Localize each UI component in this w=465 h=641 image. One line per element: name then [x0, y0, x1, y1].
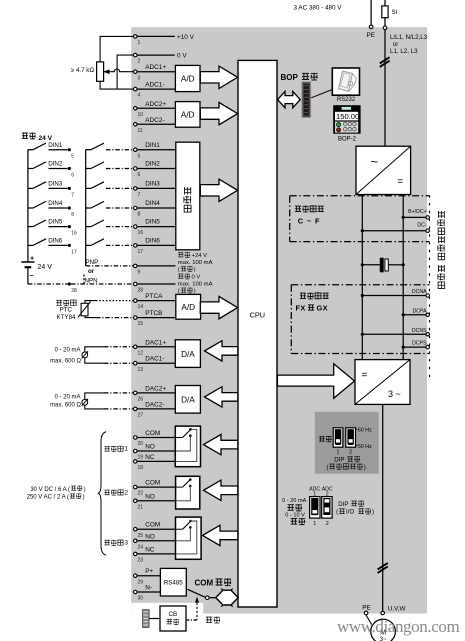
svg-text:3 AC 380 - 480 V: 3 AC 380 - 480 V — [294, 5, 343, 12]
wire dash-dot DIN3 to terminal 7 — [106, 187, 133, 189]
terminal L line input — [383, 26, 387, 30]
shield marker on mains wire — [380, 61, 390, 67]
svg-text:PNP: PNP — [86, 259, 99, 266]
svg-text:18: 18 — [138, 465, 144, 471]
svg-text:28: 28 — [71, 288, 77, 294]
CB option block — [160, 606, 186, 631]
svg-text:CB: CB — [168, 611, 177, 618]
svg-text:7: 7 — [138, 192, 141, 198]
wire terminal1 to potentiometer top — [100, 36, 133, 62]
wire P+ to RS485 — [137, 575, 160, 577]
wire DIN4 to optoisolator — [137, 207, 176, 209]
optoisolator block (guang ge li) — [176, 142, 200, 250]
terminal 16 DIN5 — [134, 225, 138, 229]
signal arrow optoisolator to CPU — [200, 179, 237, 201]
svg-text:30 V DC / 6 A (: 30 V DC / 6 A ( — [30, 487, 70, 493]
svg-text:13: 13 — [138, 367, 144, 373]
CPU block — [238, 60, 277, 607]
label output +24V max 100mA isolated — [178, 252, 183, 257]
wire dash-dot battery to terminal 28 — [28, 283, 68, 285]
wire meter2 top to terminal 26 — [85, 393, 104, 400]
wire PTCB stub to A/D — [137, 317, 176, 319]
terminal 21 relay2 NO — [134, 499, 138, 503]
svg-text:DCNA: DCNA — [412, 289, 427, 295]
wire dash-dot DIN4 to terminal 8 — [106, 207, 133, 209]
A/D converter block U1 — [175, 65, 200, 91]
svg-text:0 V: 0 V — [177, 53, 187, 60]
relay1 contact internals — [175, 437, 182, 439]
wiper arrowhead — [104, 70, 110, 74]
svg-text:8: 8 — [71, 212, 74, 218]
svg-text:2: 2 — [125, 489, 129, 496]
terminal 6 DIN2 — [134, 167, 138, 171]
svg-text:28: 28 — [138, 288, 144, 294]
svg-text:−: − — [30, 273, 34, 280]
svg-text:A/D: A/D — [181, 111, 195, 120]
right measurement dash-dot edge — [429, 196, 431, 377]
svg-text:DAC1+: DAC1+ — [145, 339, 166, 346]
terminal 30 N- — [134, 590, 138, 594]
frame size C-F dash-dot boundary — [290, 195, 430, 197]
wire DCNS to terminal — [362, 333, 425, 335]
svg-text:DIN6: DIN6 — [48, 238, 63, 245]
wire DC- to terminal — [362, 230, 425, 232]
svg-text:~: ~ — [371, 154, 379, 169]
wire DAC1- stub — [137, 362, 175, 364]
svg-text:P+: P+ — [145, 568, 153, 575]
svg-text:1: 1 — [138, 40, 141, 46]
label frame size C ~ F (kuang jia chi cun) — [295, 206, 301, 211]
svg-text:4: 4 — [138, 93, 141, 99]
terminal DCPA — [426, 313, 430, 317]
svg-text:NO: NO — [145, 493, 155, 500]
switch S3 DIN3 external option — [28, 187, 33, 189]
svg-text:1: 1 — [313, 521, 316, 527]
wire dash-dot DIN1 to terminal 5 — [106, 149, 133, 151]
svg-text:NPN: NPN — [85, 277, 98, 284]
svg-text:6: 6 — [138, 172, 141, 178]
svg-text:11: 11 — [138, 128, 143, 134]
svg-text:ADC2+: ADC2+ — [145, 101, 166, 108]
svg-text:BOP: BOP — [281, 73, 299, 82]
svg-text:RS232: RS232 — [337, 97, 356, 103]
svg-text:DIN1: DIN1 — [145, 142, 160, 149]
svg-text:DIN4: DIN4 — [48, 200, 63, 207]
svg-text:RS485: RS485 — [164, 580, 183, 587]
switch S6b DIN6 internal option — [86, 244, 91, 246]
wire relay1 NC — [137, 460, 175, 462]
terminal 25 relay3 COM — [134, 527, 138, 531]
svg-text:1: 1 — [337, 450, 340, 456]
motor output wire U V W — [382, 404, 384, 611]
svg-text:(: ( — [178, 267, 180, 273]
svg-text:DIN6: DIN6 — [145, 238, 160, 245]
terminal 23 relay3 NC — [134, 552, 138, 556]
svg-text:16: 16 — [138, 230, 144, 236]
svg-text:3 ~: 3 ~ — [388, 389, 401, 399]
switch S2 DIN2 external option — [28, 168, 33, 170]
ammeter M2 load symbol — [82, 399, 88, 405]
svg-text:COM: COM — [145, 480, 160, 487]
svg-text:A/D: A/D — [181, 75, 195, 84]
terminal 3 ADC1+ — [134, 70, 138, 74]
svg-text:10: 10 — [138, 112, 144, 118]
DC link positive rail wire — [402, 195, 404, 360]
svg-text:6: 6 — [71, 173, 74, 179]
frame size FX GX dash-dot boundary — [291, 284, 429, 286]
svg-text:DIN2: DIN2 — [48, 161, 63, 168]
RS485 interface block — [160, 568, 186, 596]
selector pivot node — [206, 596, 210, 600]
svg-text:COM: COM — [145, 430, 160, 437]
label relay 1 (ji dian qi 1) — [104, 446, 109, 451]
svg-text:PTCB: PTCB — [145, 310, 162, 317]
svg-text:60 Hz: 60 Hz — [358, 427, 372, 433]
terminal 28 0V isolated — [134, 282, 138, 286]
svg-text:22: 22 — [138, 491, 144, 497]
svg-text:16: 16 — [71, 231, 77, 237]
wire ADC2+ to A/D — [137, 107, 175, 109]
wire DIN2 to optoisolator — [137, 168, 176, 170]
right DIN common bus wire — [85, 150, 87, 266]
wire dash-dot DIN6 to terminal 17 — [106, 244, 133, 246]
svg-text:PTC: PTC — [60, 307, 73, 314]
DIP switch 2 control board — [346, 428, 356, 447]
switch selector blade COM link — [188, 589, 206, 597]
terminal PE output — [364, 611, 368, 615]
shield marker on motor wire — [378, 567, 388, 573]
svg-text:www.diangon.com: www.diangon.com — [337, 617, 459, 636]
BOP-2 operator panel icon — [333, 105, 360, 134]
switch S6 DIN6 external option — [28, 244, 33, 246]
node junction DCPS — [402, 346, 405, 349]
svg-text:2: 2 — [326, 521, 329, 527]
svg-text:DIN4: DIN4 — [145, 200, 160, 207]
svg-text:7: 7 — [71, 192, 74, 198]
terminal DCNS — [426, 332, 430, 336]
svg-text:250 V AC / 2 A (: 250 V AC / 2 A ( — [27, 495, 69, 501]
terminal 14 PTCA — [134, 299, 138, 303]
signal arrow CPU to relay2 — [204, 480, 238, 500]
svg-text:DC-: DC- — [417, 222, 426, 228]
wire terminal2 vertical to 0V rail — [117, 55, 133, 89]
svg-text:0 - 20 mA: 0 - 20 mA — [282, 498, 307, 504]
signal arrow CPU to D/A1 — [205, 341, 238, 361]
DC link negative rail wire — [361, 195, 363, 360]
svg-text:≥ 4.7 kΩ: ≥ 4.7 kΩ — [71, 67, 95, 74]
wire DCNA to terminal — [362, 295, 425, 297]
wire meter2 bottom to terminal 27 — [85, 405, 104, 409]
switch S1b DIN1 internal option — [86, 149, 91, 151]
wire N- to RS485 — [137, 591, 160, 593]
svg-text:26: 26 — [138, 397, 144, 403]
svg-text:DIN3: DIN3 — [145, 181, 160, 188]
terminal 10 ADC2+ — [134, 107, 138, 111]
svg-text:ADC1-: ADC1- — [145, 82, 164, 89]
svg-text:17: 17 — [138, 249, 144, 255]
wire 0V stub — [137, 54, 175, 56]
svg-text:3: 3 — [138, 75, 141, 81]
terminal 22 relay2 COM — [134, 485, 138, 489]
svg-text:12: 12 — [138, 350, 144, 356]
terminal 12 DAC1+ — [134, 345, 138, 349]
thermistor RT1 symbol — [81, 303, 88, 316]
terminal 15 PTCB — [134, 316, 138, 320]
svg-text:DCPS: DCPS — [412, 341, 427, 347]
terminal 9 +24V out — [134, 264, 138, 268]
svg-text:FX: FX — [296, 303, 306, 312]
COM link double arrow — [216, 590, 238, 605]
wire meter1 top to terminal 12 — [85, 347, 104, 352]
node junction DC- — [361, 229, 364, 232]
left 24V bus wire — [27, 150, 29, 260]
wire DIN6 to optoisolator — [137, 244, 176, 246]
battery 24V cell — [21, 261, 34, 263]
svg-text:0 - 20 mA: 0 - 20 mA — [54, 348, 80, 354]
inverter unit shaded body — [131, 27, 427, 613]
motor M 3~ — [371, 619, 396, 641]
node dot DIN3 option terminal 7 — [68, 187, 71, 190]
terminal 17 DIN6 — [134, 244, 138, 248]
svg-text:1: 1 — [125, 446, 129, 453]
fuse SI — [382, 6, 388, 18]
svg-text:25: 25 — [138, 533, 144, 539]
node junction DCNS — [361, 333, 364, 336]
wire relay2 NO — [137, 500, 175, 502]
svg-text:+24 V: +24 V — [192, 253, 208, 259]
svg-text:max. 600 Ω: max. 600 Ω — [50, 358, 81, 364]
node junction B+/DC+ — [402, 216, 405, 219]
svg-text:A/D: A/D — [181, 303, 195, 312]
svg-text:=: = — [362, 370, 368, 381]
svg-text:8: 8 — [138, 212, 141, 218]
DIP switch panel (control board) — [315, 412, 379, 474]
svg-text:3: 3 — [125, 540, 129, 547]
wire mains above fuse — [384, 0, 386, 6]
svg-text:D/A: D/A — [181, 350, 195, 359]
signal arrow A/D1 to CPU — [200, 66, 237, 88]
RS232 icon — [332, 68, 359, 95]
svg-text:9: 9 — [138, 270, 141, 276]
svg-text:21: 21 — [138, 504, 144, 510]
DC link capacitor C1 — [362, 264, 380, 266]
wire relay2 COM — [137, 486, 182, 488]
label relay 2 (ji dian qi 2) — [104, 490, 109, 495]
wire relay3 NO — [137, 540, 175, 542]
svg-text:): ) — [83, 495, 85, 501]
svg-text:24 V: 24 V — [39, 135, 53, 142]
BOP panel connector strip — [302, 82, 311, 118]
svg-text:NO: NO — [145, 444, 155, 451]
svg-text:DIN5: DIN5 — [145, 219, 160, 226]
signal arrow CPU to relay1 — [204, 434, 238, 454]
svg-text:27: 27 — [138, 413, 144, 419]
node junction DCNA — [361, 294, 364, 297]
terminal 24 relay3 NO — [134, 539, 138, 543]
terminal 5 DIN1 — [134, 148, 138, 152]
svg-text:DAC2+: DAC2+ — [145, 385, 166, 392]
svg-text:): ) — [84, 487, 86, 493]
D/A converter block U5 — [175, 386, 200, 414]
svg-text:0 - 20 mA: 0 - 20 mA — [54, 394, 80, 400]
svg-text:29: 29 — [138, 579, 144, 585]
wire dash-dot dot28 to terminal 28 — [71, 283, 133, 285]
wire dashed NPN option vertical — [83, 275, 85, 285]
terminal 7 DIN3 — [134, 187, 138, 191]
svg-text:17: 17 — [71, 249, 77, 255]
switch S4 DIN4 external option — [28, 207, 33, 209]
svg-text:5: 5 — [138, 153, 141, 159]
terminal 4 ADC1- — [134, 87, 138, 91]
relay K3 contact block — [176, 517, 202, 559]
svg-text:+10 V: +10 V — [177, 34, 195, 41]
svg-text:20: 20 — [138, 441, 144, 447]
svg-text:): ) — [364, 464, 366, 471]
wire PTCA stub to A/D — [137, 300, 176, 302]
node dot DIN2 option terminal 6 — [68, 167, 71, 170]
wire DIN1 to optoisolator — [137, 149, 176, 151]
svg-text:24: 24 — [138, 544, 144, 550]
label external 24 V (wai bu 24 V) — [22, 133, 28, 138]
svg-text:30: 30 — [138, 596, 144, 602]
D/A converter block U4 — [175, 340, 200, 368]
svg-text:DAC2-: DAC2- — [145, 401, 164, 408]
svg-text:or: or — [393, 41, 399, 48]
wire PTCB to terminal 15 — [85, 316, 96, 318]
svg-text:): ) — [194, 267, 196, 273]
signal arrow CPU to D/A2 — [205, 387, 238, 407]
wire PE to motor — [366, 615, 373, 627]
wire connector to RS232 icon — [311, 90, 332, 98]
terminal 19 relay1 NO — [134, 449, 138, 453]
signal arrow CPU to inverter — [277, 364, 354, 398]
wire pivot to link arrow — [209, 597, 216, 599]
svg-text:ADC1+: ADC1+ — [145, 64, 166, 71]
wiper wire with hop to terminal 3 — [104, 69, 133, 72]
node dot DIN5 option terminal 16 — [68, 225, 71, 228]
svg-text:PTCA: PTCA — [145, 293, 163, 300]
wire DAC2+ stub — [137, 392, 175, 394]
wire DCPA to terminal — [403, 314, 426, 316]
bottom-left white notch of unit body — [131, 603, 203, 614]
DIP switch 1 control board — [333, 428, 343, 447]
terminal PE top — [369, 25, 373, 29]
label output 0V max 100mA isolated — [178, 274, 183, 279]
svg-text:PE: PE — [362, 605, 371, 612]
wire +10V stub — [137, 35, 175, 37]
node dot DIN6 option terminal 17 — [68, 244, 71, 247]
wire ADC1- to A/D — [137, 88, 175, 90]
svg-text:DIN2: DIN2 — [145, 161, 160, 168]
terminal U,V,W output — [381, 611, 385, 615]
svg-text:or: or — [88, 268, 95, 275]
terminal DCPS — [426, 345, 430, 349]
node junction DCPA — [402, 313, 405, 316]
terminal 20 relay1 COM — [134, 436, 138, 440]
wire meter1 bottom to terminal 13 — [85, 358, 104, 363]
terminal 29 P+ — [134, 574, 138, 578]
svg-text:max. 100 mA: max. 100 mA — [178, 260, 213, 266]
terminal 8 DIN4 — [134, 206, 138, 210]
wire ADC2- to A/D — [137, 123, 175, 125]
svg-text:L1, L2, L3: L1, L2, L3 — [390, 48, 418, 55]
svg-text:CPU: CPU — [250, 310, 265, 319]
svg-text:KTY84: KTY84 — [57, 314, 76, 321]
svg-text:+: + — [30, 256, 34, 263]
node junction capacitor right — [402, 263, 405, 266]
terminal 27 DAC2- — [134, 407, 138, 411]
svg-text:=: = — [397, 177, 403, 188]
wire dash-dot DIN2 to terminal 6 — [106, 168, 133, 170]
wire dash-dot CB to selector — [186, 619, 197, 621]
svg-text:0 V: 0 V — [192, 275, 201, 281]
svg-text:DIP: DIP — [338, 501, 348, 508]
svg-text:23: 23 — [138, 558, 144, 564]
terminal 18 relay1 NC — [134, 460, 138, 464]
svg-text:150.00: 150.00 — [336, 112, 359, 121]
svg-text:PE: PE — [367, 32, 376, 39]
wire dash-dot bus to terminal 9 — [86, 265, 134, 267]
wire DCPS to terminal — [403, 346, 426, 348]
label bu yong (not used) — [319, 436, 325, 441]
wire terminal 28 stub — [137, 283, 175, 285]
svg-text:50 Hz: 50 Hz — [358, 444, 372, 450]
wire relay3 NC — [137, 553, 175, 555]
relay group brace — [98, 432, 106, 556]
wire relay3 COM — [137, 528, 182, 530]
svg-text:0 - 10 V: 0 - 10 V — [285, 512, 305, 518]
wire connector to CB box — [149, 618, 160, 620]
wire dash-dot DIN5 to terminal 16 — [106, 226, 133, 228]
label motor PTC KTY84 — [56, 300, 62, 305]
inverter block DC/3AC — [355, 360, 410, 405]
svg-text:2: 2 — [138, 59, 141, 65]
node junction capacitor left — [361, 263, 364, 266]
node dot option terminal 28 — [68, 282, 71, 285]
A/D converter block U2 — [175, 102, 200, 128]
ammeter M1 load symbol — [82, 352, 88, 358]
wire terminal 9 stub — [137, 265, 175, 267]
terminal 11 ADC2- — [134, 123, 138, 127]
svg-text:SI: SI — [392, 10, 398, 16]
svg-text:NO: NO — [145, 533, 155, 540]
svg-text:2: 2 — [349, 450, 352, 456]
switch S5b DIN5 internal option — [86, 226, 91, 228]
wire relay1 NO — [137, 450, 175, 452]
wire DIN3 to optoisolator — [137, 187, 176, 189]
svg-text:B+/DC+: B+/DC+ — [408, 209, 426, 215]
switch S3b DIN3 internal option — [86, 187, 91, 189]
wire PE supply drop — [370, 0, 372, 25]
switch S4b DIN4 internal option — [86, 207, 91, 209]
svg-text:DCNS: DCNS — [412, 328, 427, 334]
svg-text:DCPA: DCPA — [413, 308, 428, 314]
svg-text:GX: GX — [317, 303, 328, 312]
terminal 13 DAC1- — [134, 361, 138, 365]
BOP double arrow CPU to panel connector — [278, 91, 301, 107]
wire B+/DC+ to terminal — [403, 216, 426, 218]
svg-text:15: 15 — [138, 321, 144, 327]
svg-text:5: 5 — [71, 154, 74, 160]
svg-text:3~: 3~ — [380, 637, 387, 641]
terminal B+/DC+ — [426, 216, 430, 220]
svg-text:NC: NC — [145, 546, 155, 553]
wire DAC2- stub — [137, 408, 175, 410]
DIP switch 1 io board — [310, 497, 320, 518]
wire potentiometer bottom to terminal 4 — [100, 81, 133, 89]
svg-text:max. 100 mA: max. 100 mA — [178, 282, 213, 288]
node dot DIN1 option terminal 5 — [68, 148, 71, 151]
